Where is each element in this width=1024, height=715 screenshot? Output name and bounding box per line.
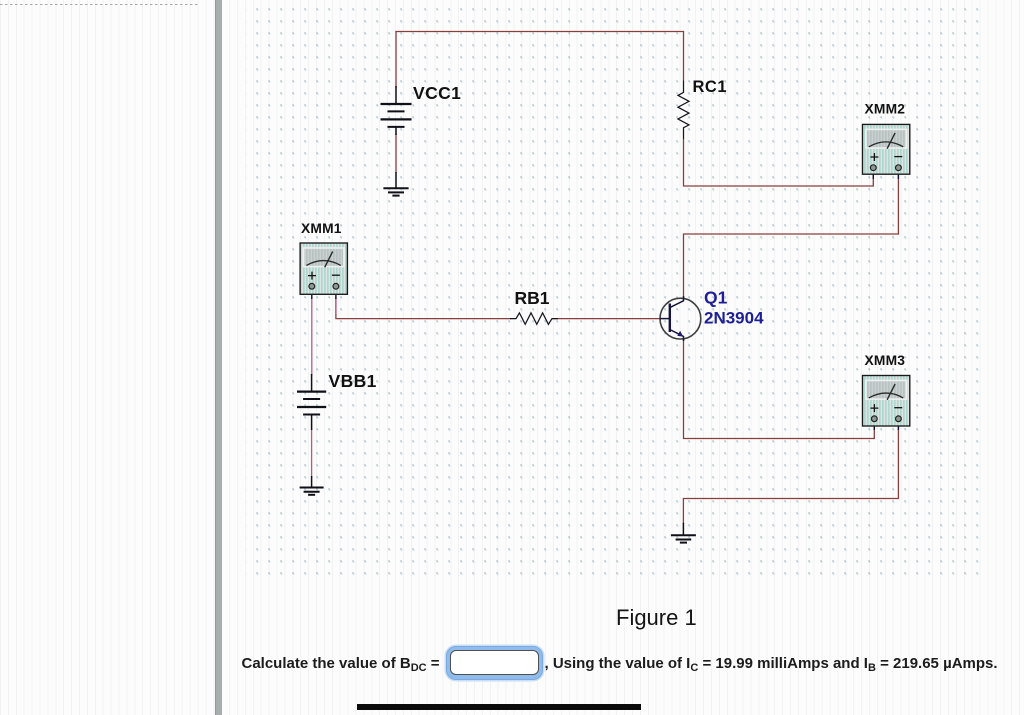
multimeter XMM1 — [300, 243, 347, 299]
svg-text:VBB1: VBB1 — [329, 371, 377, 391]
wire RC1 to XMM2 plus — [684, 139, 874, 186]
svg-text:XMM2: XMM2 — [865, 102, 906, 117]
question text right — [545, 655, 998, 674]
svg-text:XMM3: XMM3 — [865, 353, 906, 368]
dashed line top of left panel — [0, 4, 199, 6]
label Figure 1 — [616, 605, 697, 631]
multimeter XMM3 — [863, 376, 910, 431]
answer input box — [446, 646, 544, 680]
wire VBB1 to ground — [311, 429, 313, 477]
resistor RB1 — [510, 313, 558, 324]
svg-text:XMM1: XMM1 — [301, 221, 342, 236]
svg-text:2N3904: 2N3904 — [704, 309, 764, 328]
battery VBB1 — [297, 374, 326, 430]
transistor Q1 — [660, 296, 701, 341]
scrollbar thumb — [357, 704, 642, 710]
wire segment pink XMM1 minus — [335, 298, 337, 314]
question text left — [242, 655, 440, 674]
wire RB1 to Q1 base — [552, 318, 661, 320]
wire XMM1 plus to VBB1 — [311, 295, 313, 375]
ground below VCC1 — [383, 172, 408, 196]
svg-text:RB1: RB1 — [515, 288, 550, 308]
ground below VBB1 — [300, 476, 324, 495]
resistor RC1 — [678, 81, 689, 140]
battery VCC1 — [381, 86, 412, 135]
wire VCC1 top to RC1 — [396, 32, 684, 89]
ground at emitter — [671, 523, 696, 543]
svg-text:VCC1: VCC1 — [413, 83, 461, 103]
wire XMM1 minus to RB1 — [336, 296, 511, 319]
grid background — [246, 0, 986, 582]
wire VCC1 negative to ground — [395, 133, 397, 173]
svg-text:RC1: RC1 — [693, 78, 728, 96]
wire Q1 emitter to XMM3 plus — [684, 339, 875, 439]
panel divider — [215, 0, 223, 715]
wire XMM2 minus to Q1 collector — [684, 170, 899, 298]
multimeter XMM2 — [863, 124, 910, 179]
svg-text:Q1: Q1 — [704, 288, 728, 308]
wire XMM3 minus to ground — [683, 421, 898, 524]
